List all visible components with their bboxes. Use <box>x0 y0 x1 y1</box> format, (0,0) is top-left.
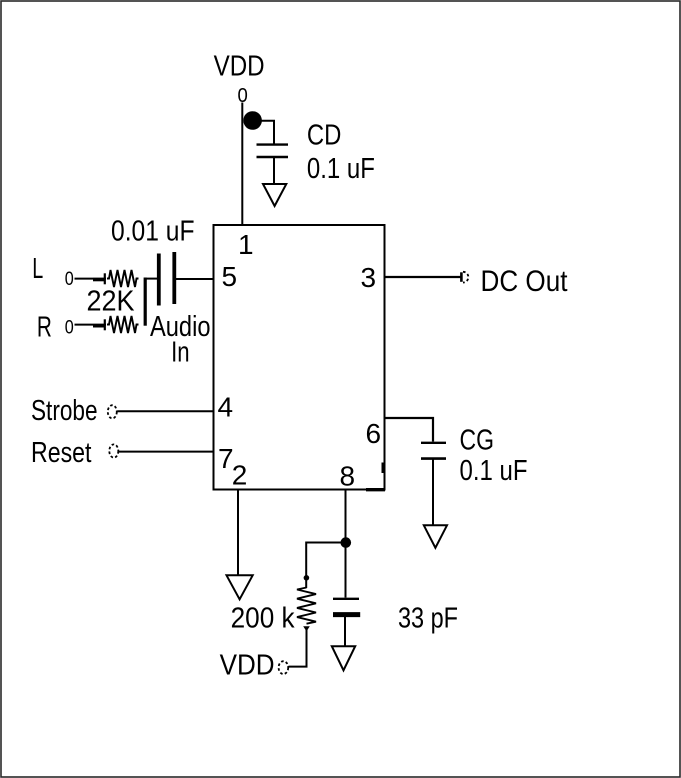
svg-text:In: In <box>171 337 190 369</box>
terminal VDD bottom (dashed circle) <box>279 661 289 674</box>
svg-text:3: 3 <box>361 262 377 293</box>
svg-text:R: R <box>37 311 52 343</box>
resistor 22K (R) zigzag <box>107 316 139 333</box>
wire IC pin 6 to capacitor CG <box>385 418 434 442</box>
svg-text:200 k: 200 k <box>231 603 295 635</box>
terminal Strobe (dashed circle) <box>108 405 117 418</box>
wire CG to ground <box>432 460 434 526</box>
resistor 22K (L) pin marker <box>93 273 105 284</box>
svg-text:Reset: Reset <box>31 437 92 469</box>
svg-text:2: 2 <box>232 460 248 491</box>
wire IC pin 8 down <box>345 490 347 598</box>
wire R terminal to resistor <box>75 324 107 326</box>
ground (CD) <box>263 184 286 206</box>
junction dot at resistor top <box>304 575 310 581</box>
svg-text:VDD: VDD <box>220 650 275 682</box>
svg-text:22K: 22K <box>87 286 136 318</box>
wire bus joining L and R resistors <box>144 278 147 326</box>
svg-text:6: 6 <box>366 418 382 449</box>
wire VDD terminal to IC pin 1 <box>241 103 243 226</box>
svg-text:33 pF: 33 pF <box>398 603 458 635</box>
svg-text:1: 1 <box>238 229 254 260</box>
wire IC pin 3 to DC Out terminal <box>385 276 461 278</box>
wire Reset to IC pin 7 <box>119 451 214 453</box>
svg-text:5: 5 <box>222 261 238 292</box>
wire junction to resistor 200k <box>306 543 345 589</box>
IC right-edge thick notch <box>382 463 385 474</box>
svg-text:8: 8 <box>340 461 356 492</box>
ground (pin 2) <box>227 575 253 599</box>
svg-text:0.1 uF: 0.1 uF <box>307 153 375 185</box>
ground (33pF) <box>332 646 355 670</box>
wire IC pin 2 to ground <box>237 490 239 576</box>
svg-text:0: 0 <box>65 269 74 290</box>
junction dot pin 8 net <box>341 537 352 548</box>
capacitor 33pF <box>333 599 360 615</box>
terminal Reset (dashed circle) <box>109 444 118 457</box>
terminal DC Out (tick + dashed circle) <box>461 272 468 283</box>
resistor 22K (L) zigzag <box>107 270 139 287</box>
junction dot on VDD net <box>243 111 262 130</box>
svg-text:CG: CG <box>460 425 495 457</box>
ground (CG) <box>424 525 447 548</box>
svg-text:0.01 uF: 0.01 uF <box>111 216 195 248</box>
svg-text:VDD: VDD <box>214 50 265 82</box>
svg-text:L: L <box>32 253 43 285</box>
svg-text:4: 4 <box>218 392 234 423</box>
wire junction to capacitor CD <box>258 121 274 144</box>
IC bottom-edge thick segment <box>366 488 385 491</box>
svg-text:DC Out: DC Out <box>481 265 569 298</box>
resistor 200k bottom pin arrow <box>303 626 310 631</box>
svg-text:Strobe: Strobe <box>31 395 98 427</box>
IC U1 body <box>214 225 385 490</box>
svg-text:CD: CD <box>307 119 342 151</box>
svg-text:0: 0 <box>65 318 74 339</box>
wire bus to capacitor 0.01uF <box>145 278 157 280</box>
wire capacitor to IC pin 5 <box>176 278 214 280</box>
svg-text:0.1 uF: 0.1 uF <box>460 455 528 487</box>
capacitor CG <box>421 443 446 459</box>
wire L terminal to resistor <box>75 278 107 280</box>
wire 33pF to ground <box>344 617 346 646</box>
resistor 22K (R) pin marker <box>93 319 105 330</box>
wire resistor to VDD terminal <box>289 629 307 667</box>
wire CD to ground <box>273 158 275 184</box>
capacitor 0.01uF plates <box>159 252 175 306</box>
resistor 200k zigzag <box>297 588 316 624</box>
capacitor CD <box>257 145 289 157</box>
wire Strobe to IC pin 4 <box>118 410 214 412</box>
label Audio In <box>150 311 211 368</box>
